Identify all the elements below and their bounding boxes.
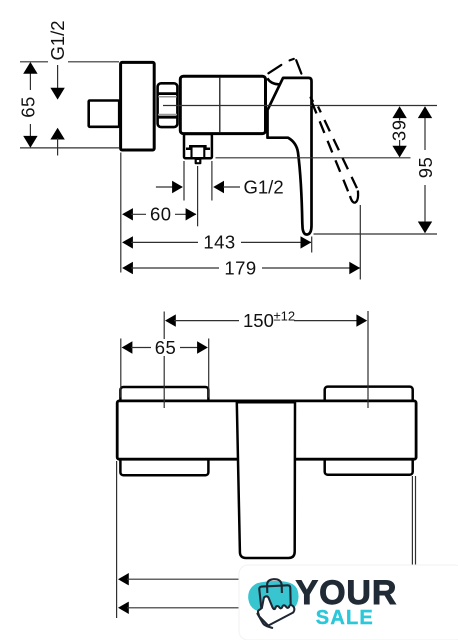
- left escutcheon plate: [120, 387, 208, 475]
- reference line at handle tip level: [314, 233, 438, 235]
- centerline of mixer body (top view): [163, 105, 437, 107]
- svg-text:G1/2: G1/2: [244, 176, 284, 197]
- extension line dashed lever tip: [359, 205, 361, 280]
- svg-text:60: 60: [150, 204, 172, 225]
- right escutcheon plate: [325, 387, 413, 475]
- logo shopping bag: [259, 585, 290, 609]
- logo background card: [239, 565, 458, 640]
- dim 179: [122, 257, 360, 278]
- svg-text:±12: ±12: [274, 309, 296, 324]
- dim 143: [122, 232, 311, 253]
- wall supply pipe: [89, 101, 120, 127]
- dim 95 (vertical right): [415, 106, 436, 233]
- svg-text:179: 179: [224, 257, 256, 278]
- svg-text:SALE: SALE: [316, 607, 374, 629]
- logo hand: [258, 596, 294, 625]
- dim 39 (vertical right): [388, 106, 409, 157]
- svg-text:95: 95: [415, 157, 436, 179]
- dashed lever (open position): [311, 101, 350, 197]
- handle (front): [237, 402, 295, 558]
- outlet nut center cap: [186, 146, 210, 148]
- logo blob: [248, 581, 298, 613]
- outlet centerline: [197, 166, 199, 226]
- lower reference line at outlet level: [216, 157, 411, 159]
- body seam line: [219, 77, 221, 133]
- svg-text:65: 65: [18, 96, 39, 118]
- dim G1/2 (wall pipe, vertical): [47, 20, 68, 155]
- mixer body bar: [117, 401, 416, 459]
- logo hand cuff: [257, 614, 272, 628]
- wall flange escutcheon: [121, 62, 155, 150]
- handle lever (closed position, solid): [268, 78, 312, 235]
- extension line flange left edge: [120, 153, 122, 273]
- dashed lever tip: [350, 191, 358, 203]
- bottom dim line 1: [118, 573, 129, 585]
- svg-text:39: 39: [388, 120, 409, 142]
- svg-text:143: 143: [203, 232, 235, 253]
- dashed lever head (open position): [268, 59, 312, 101]
- bottom extension line left: [116, 461, 118, 618]
- extension line handle tip: [311, 237, 313, 253]
- svg-text:65: 65: [155, 337, 177, 358]
- shower outlet housing: [184, 134, 212, 158]
- svg-text:YOUR: YOUR: [296, 574, 398, 612]
- mixer body: [180, 76, 265, 133]
- union nut: [157, 83, 178, 127]
- dim 150±12: [164, 309, 368, 409]
- outlet nipple: [195, 159, 202, 165]
- svg-text:G1/2: G1/2: [47, 20, 68, 60]
- dim 65 (front): [121, 337, 209, 398]
- dim 65 (vertical, left): [18, 62, 120, 148]
- dim 60: [122, 204, 196, 225]
- pivot arc: [267, 78, 280, 84]
- svg-text:150: 150: [243, 310, 274, 331]
- bottom dim line 2: [118, 602, 129, 614]
- logo bag handle: [267, 579, 282, 593]
- bottom extension lines right: [411, 476, 413, 566]
- dim G1/2 (outlet): [156, 161, 284, 201]
